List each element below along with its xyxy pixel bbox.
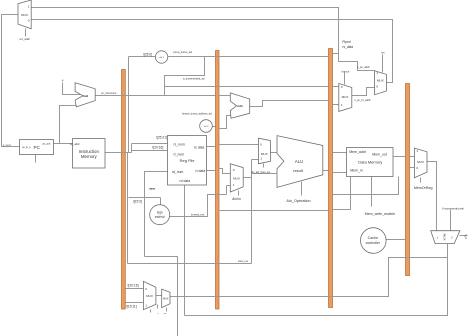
svg-text:0: 0 [28,18,30,22]
svg-text:A incremental pixel: A incremental pixel [442,207,464,211]
svg-text:rs_data: rs_data [342,45,353,49]
svg-text:0: 0 [233,168,235,172]
svg-text:Piped: Piped [342,40,350,44]
svg-text:Mem_out: Mem_out [372,153,387,157]
svg-text:Cache: Cache [368,236,378,240]
svg-text:extend: extend [155,215,165,219]
svg-text:pc_increment: pc_increment [101,92,116,95]
svg-text:src_addr: src_addr [19,37,30,41]
svg-text:sign: sign [157,211,163,215]
svg-text:Add: Add [237,104,243,108]
svg-text:1: 1 [260,157,262,161]
svg-text:MUX: MUX [233,176,240,180]
svg-text:ALU: ALU [295,159,303,164]
svg-text:rt_num: rt_num [174,152,185,156]
svg-text:I[20:16]: I[20:16] [152,146,163,150]
svg-text:jump_instru_ad: jump_instru_ad [173,50,193,54]
svg-text:branch_instru_address_ad: branch_instru_address_ad [182,113,212,116]
svg-text:n_pc: n_pc [464,234,467,240]
svg-text:p_next: p_next [3,143,11,147]
svg-text:1: 1 [28,5,30,9]
svg-text:Mem_in: Mem_in [350,168,363,172]
svg-text:immed_res: immed_res [191,212,205,216]
svg-text:MUX: MUX [443,234,447,241]
svg-text:Add: Add [83,94,89,98]
svg-text:AluIm: AluIm [231,197,241,201]
svg-text:MUX: MUX [417,160,424,164]
svg-text:0: 0 [260,142,262,146]
svg-text:rt data: rt data [195,169,205,173]
svg-text:pc_addr: pc_addr [70,142,80,146]
svg-text:MUX: MUX [21,13,28,17]
svg-text:pc_out: pc_out [43,142,51,146]
svg-text:Memory: Memory [81,154,98,159]
svg-text:controller: controller [366,241,381,245]
svg-text:Data Memory: Data Memory [358,159,382,164]
svg-text:1: 1 [233,183,235,187]
svg-text:n_pc_br_addr: n_pc_br_addr [354,98,371,102]
svg-text:1: 1 [341,103,343,107]
svg-text:pc_in_s: pc_in_s [22,146,31,149]
svg-text:rd data: rd data [180,179,191,183]
svg-text:I[25:21]: I[25:21] [156,136,167,140]
svg-text:result: result [293,168,304,173]
svg-text:0: 0 [376,85,378,89]
svg-text:shl 2: shl 2 [204,126,209,128]
svg-text:Alu_Operation: Alu_Operation [286,199,310,203]
svg-text:a_incremented_ad: a_incremented_ad [183,77,205,81]
svg-text:Mem_addr: Mem_addr [349,150,367,154]
svg-text:rd_num: rd_num [172,170,184,174]
svg-text:rs_num: rs_num [174,143,185,147]
svg-text:Reg File: Reg File [180,158,196,163]
svg-text:branch: branch [342,70,350,73]
svg-text:shl 2: shl 2 [159,57,164,59]
svg-text:I[20:16]: I[20:16] [128,284,139,288]
svg-text:store_res: store_res [238,260,249,263]
svg-text:MUX: MUX [342,95,349,99]
svg-text:MUX: MUX [261,152,268,156]
svg-text:nxt: nxt [381,52,385,55]
svg-text:rs data: rs data [194,145,204,149]
svg-text:MUX: MUX [377,79,384,83]
svg-text:0: 0 [341,85,343,89]
svg-text:wpw: wpw [148,187,156,190]
svg-text:MUX: MUX [163,298,169,301]
svg-text:n_pc_addr: n_pc_addr [357,65,370,69]
svg-text:0: 0 [145,287,147,291]
svg-text:1: 1 [416,149,418,153]
svg-text:PC: PC [34,145,41,150]
svg-text:I[15:11]: I[15:11] [126,304,137,308]
svg-text:alu_left_input_res: alu_left_input_res [251,171,271,174]
svg-text:s: s [158,313,160,315]
svg-text:Mem_write_enable: Mem_write_enable [365,212,395,216]
svg-text:1: 1 [145,303,147,307]
svg-text:I[15:0]: I[15:0] [133,199,142,203]
svg-text:im: im [164,313,166,315]
svg-text:MemOrReg: MemOrReg [414,186,433,190]
svg-text:0: 0 [416,166,418,170]
svg-text:I[25:0]: I[25:0] [143,53,152,57]
svg-text:MUX: MUX [146,294,153,298]
svg-text:1: 1 [376,71,378,75]
svg-text:4: 4 [62,79,64,83]
